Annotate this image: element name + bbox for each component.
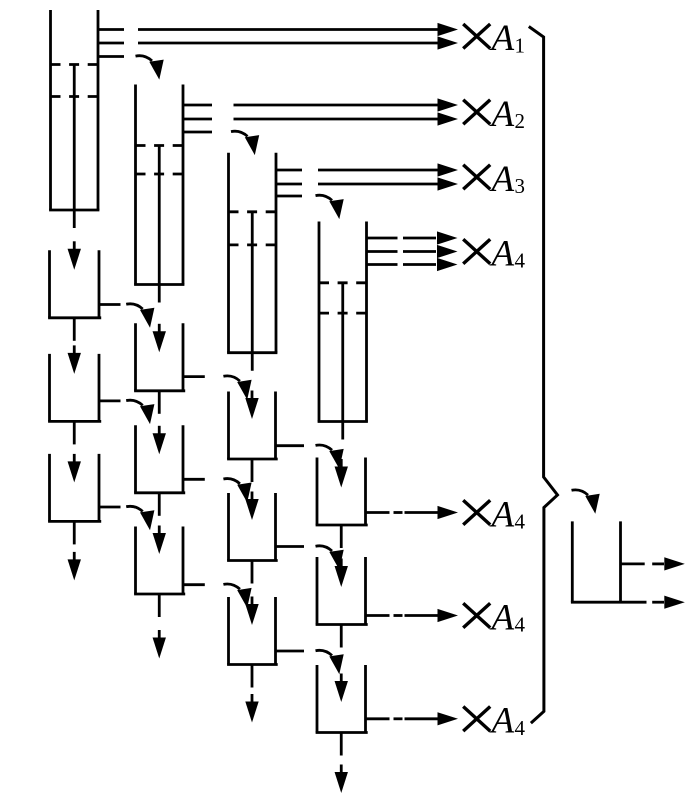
svg-text:A: A bbox=[489, 597, 515, 638]
multiplier label xA4 top bbox=[463, 233, 525, 274]
curved arrow V3 to V4 bbox=[316, 195, 344, 219]
curved arrow V2 to V3 bbox=[231, 131, 259, 155]
down arrow into vessel 1a bbox=[68, 241, 81, 269]
multiplier label xA3 bbox=[463, 159, 525, 200]
stem below vessel 1a bbox=[73, 318, 76, 341]
stem below vessel 4c bbox=[340, 733, 343, 756]
stem below vessel 3a bbox=[251, 459, 254, 482]
svg-text:2: 2 bbox=[515, 109, 526, 133]
svg-text:4: 4 bbox=[515, 613, 526, 637]
stem below vessel 2c bbox=[158, 594, 161, 617]
stem below vessel 4a bbox=[340, 525, 343, 548]
down arrow into vessel 3b bbox=[245, 492, 258, 521]
stem below vessel 4b bbox=[340, 625, 343, 648]
curved arrow 1c to 2c bbox=[126, 506, 154, 530]
svg-text:A: A bbox=[489, 94, 515, 135]
accumulator vessel 2b bbox=[134, 425, 205, 493]
down arrow into vessel 2a bbox=[153, 324, 166, 353]
down arrow into vessel 4b bbox=[335, 559, 348, 588]
svg-text:A: A bbox=[489, 494, 515, 535]
multiplier label xA4 row 3 bbox=[463, 701, 525, 742]
svg-text:4: 4 bbox=[515, 249, 526, 273]
accumulator vessel 1a bbox=[48, 250, 120, 317]
stem below vessel 1b bbox=[73, 421, 76, 444]
delay-line vessel V4 bbox=[318, 222, 398, 440]
svg-text:4: 4 bbox=[515, 716, 526, 740]
delay-line vessel V2 bbox=[134, 85, 212, 303]
accumulator vessel 3a bbox=[227, 392, 304, 460]
multiplier label xA4 row 2 bbox=[463, 597, 525, 638]
final down arrow column 2 bbox=[153, 630, 166, 659]
down arrow into vessel 2c bbox=[153, 526, 166, 555]
accumulator vessel 4c bbox=[316, 665, 390, 733]
stem below vessel 1c bbox=[73, 521, 76, 544]
double output lines to multiplier A2 bbox=[234, 98, 459, 125]
double output lines to multiplier A3 bbox=[318, 163, 458, 190]
down arrow into vessel 2b bbox=[153, 426, 166, 455]
accumulator vessel 3b bbox=[227, 493, 304, 561]
curved arrow 3a to 4a bbox=[316, 445, 344, 469]
dashed output arrow row 1 to xA4 bbox=[394, 506, 459, 519]
down arrow into vessel 4a bbox=[335, 459, 348, 488]
accumulator vessel 4b bbox=[316, 557, 390, 625]
curved arrow 2b to 3b bbox=[223, 479, 251, 503]
accumulator vessel 2c bbox=[134, 527, 205, 595]
accumulator vessel 4a bbox=[316, 458, 390, 526]
svg-text:4: 4 bbox=[515, 510, 526, 534]
curved arrow V1 to V2 bbox=[136, 56, 164, 80]
svg-text:A: A bbox=[489, 159, 515, 200]
triple output lines to multiplier A4 bbox=[403, 231, 458, 271]
curved arrow 2a to 3a bbox=[223, 376, 251, 400]
curved arrow 1b to 2b bbox=[126, 400, 154, 424]
curved arrow 3b to 4b bbox=[316, 546, 344, 570]
accumulator vessel 1b bbox=[48, 354, 120, 422]
svg-text:3: 3 bbox=[515, 174, 526, 198]
final down arrow column 4 bbox=[335, 765, 348, 794]
multiplier label xA1 bbox=[463, 18, 525, 59]
curved arrow 2c to 3c bbox=[223, 584, 251, 608]
curved arrow 1a to 2a bbox=[126, 304, 154, 328]
stem below vessel 2a bbox=[158, 391, 161, 414]
svg-text:1: 1 bbox=[515, 33, 526, 57]
curly brace grouping outputs bbox=[529, 27, 558, 724]
down arrow into vessel 3c bbox=[245, 597, 258, 626]
curved arrow brace to summing vessel bbox=[572, 490, 600, 514]
accumulator vessel 2a bbox=[134, 323, 205, 391]
down arrow into vessel 4c bbox=[335, 674, 348, 703]
delay-line vessel V3 bbox=[227, 153, 302, 371]
stem below vessel 3c bbox=[251, 665, 254, 688]
multiplier label xA2 bbox=[463, 94, 525, 135]
accumulator vessel 3c bbox=[227, 597, 304, 665]
svg-text:A: A bbox=[489, 18, 515, 59]
double output lines to multiplier A1 bbox=[138, 23, 458, 50]
dashed output arrow lower bbox=[652, 596, 685, 609]
svg-text:A: A bbox=[489, 233, 515, 274]
accumulator vessel 1c bbox=[48, 454, 120, 522]
summing vessel bbox=[571, 521, 647, 602]
dashed output arrow upper bbox=[652, 557, 685, 570]
multiplier label xA4 row 1 bbox=[463, 494, 525, 535]
down arrow into vessel 1b bbox=[68, 345, 81, 374]
curved arrow 3c to 4c bbox=[316, 650, 344, 674]
final down arrow column 1 bbox=[68, 552, 81, 581]
down arrow into vessel 3a bbox=[245, 391, 258, 420]
stem below vessel 2b bbox=[158, 493, 161, 516]
final down arrow column 3 bbox=[245, 694, 258, 723]
svg-text:A: A bbox=[489, 701, 515, 742]
stem below vessel 3b bbox=[251, 561, 254, 584]
delay-line vessel V1 bbox=[49, 10, 124, 228]
dashed output arrow row 2 to xA4 bbox=[394, 609, 459, 622]
dashed output arrow row 3 to xA4 bbox=[394, 712, 459, 725]
down arrow into vessel 1c bbox=[68, 454, 81, 483]
